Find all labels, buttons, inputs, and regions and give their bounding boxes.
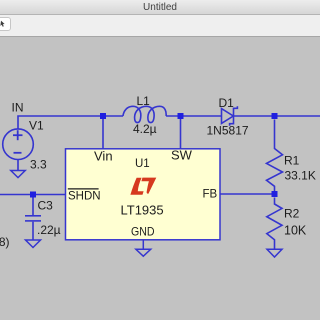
node junction FB (272, 191, 278, 197)
toolbar (0, 15, 320, 37)
svg-text:SHDN: SHDN (68, 191, 101, 203)
diode D1 (222, 106, 238, 126)
wire Vin pin (102, 116, 104, 149)
svg-text:4.2µ: 4.2µ (133, 122, 157, 136)
svg-text:(8): (8) (0, 235, 10, 249)
resistor R2 (267, 198, 282, 250)
svg-text:10K: 10K (284, 224, 307, 238)
svg-text:Vin: Vin (94, 149, 113, 164)
window title bar (0, 0, 320, 15)
svg-text:1N5817: 1N5817 (207, 124, 249, 138)
ground below V1 (11, 171, 25, 178)
ground below C3 (26, 240, 41, 248)
wire IN net top (18, 116, 123, 129)
wire SHDN net left (0, 194, 66, 196)
wire L1 to SW junction (166, 115, 221, 117)
svg-text:R1: R1 (284, 153, 300, 167)
capacitor C3 (25, 197, 41, 240)
svg-text:V1: V1 (29, 119, 44, 133)
cursor tool icon (0, 21, 4, 27)
node junction OUT top (272, 113, 278, 119)
node junction IN/Vin (100, 113, 106, 119)
voltage source V1 (3, 129, 34, 171)
resistor R1 (267, 120, 283, 195)
svg-text:GND: GND (131, 225, 155, 239)
wire SW pin (180, 116, 182, 149)
svg-text:D1: D1 (219, 96, 235, 110)
svg-text:R2: R2 (284, 206, 300, 220)
LT logo U1 (130, 178, 156, 195)
svg-text:U1: U1 (135, 158, 150, 170)
IC U1 LT1935 box (66, 149, 221, 240)
cursor tool button (0, 17, 11, 31)
svg-text:L1: L1 (137, 94, 151, 108)
svg-text:C3: C3 (38, 199, 54, 213)
ground below U1 GND pin (136, 240, 151, 256)
ground below R2 (267, 249, 282, 257)
inductor L1 (123, 106, 166, 122)
svg-text:LT1935: LT1935 (121, 202, 164, 217)
IC pin labels (68, 148, 218, 239)
svg-text:SW: SW (171, 148, 193, 163)
svg-text:.22µ: .22µ (37, 223, 61, 237)
wire FB net (220, 193, 275, 195)
wire diode cathode to right edge (234, 115, 320, 117)
svg-text:IN: IN (12, 101, 24, 115)
svg-text:33.1K: 33.1K (285, 169, 316, 183)
node junction SW (178, 113, 184, 119)
svg-text:3.3: 3.3 (30, 158, 47, 172)
node junction SHDN/C3 (30, 192, 36, 198)
svg-text:FB: FB (203, 189, 218, 201)
